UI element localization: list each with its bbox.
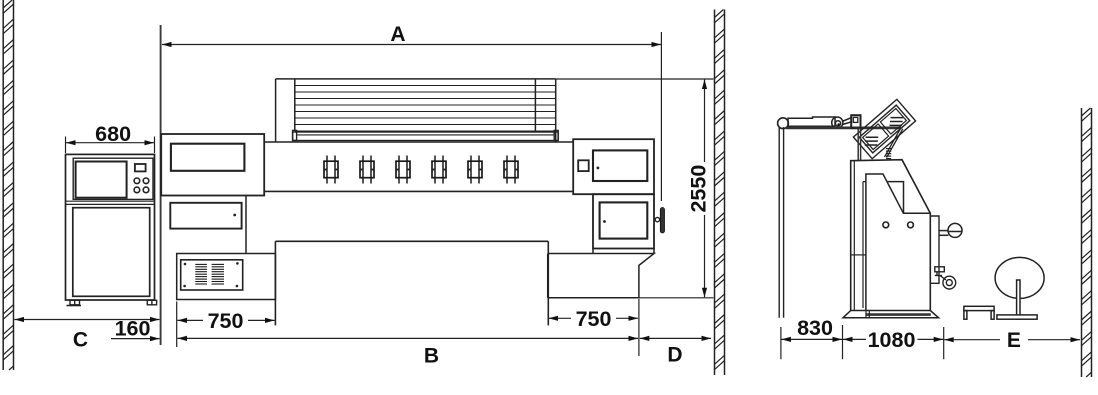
- stool: [964, 306, 994, 319]
- svg-text:830: 830: [797, 316, 833, 340]
- diagonal strut: [885, 128, 903, 158]
- machine left edge / extension line: [160, 25, 162, 345]
- roller assembly frame on top: [276, 79, 556, 142]
- floor extension line to wall: [639, 297, 714, 299]
- support post below bracket: [858, 128, 860, 161]
- spindle unit 2: [360, 156, 374, 184]
- dimension B: [178, 337, 639, 339]
- svg-text:750: 750: [208, 309, 244, 333]
- cabinet right foot: [147, 300, 156, 305]
- side view: fabric stand pole: [778, 118, 789, 318]
- arm bracket: [851, 115, 860, 128]
- right head inner rect: [593, 150, 647, 181]
- svg-text:2550: 2550: [687, 165, 711, 213]
- cabinet left foot: [70, 300, 80, 305]
- svg-text:C: C: [73, 328, 88, 351]
- central bed: [275, 241, 548, 325]
- spindle unit 4: [432, 156, 446, 184]
- roll stand base: [997, 315, 1037, 319]
- tilted panel slat marks (screen-space): [865, 118, 903, 145]
- right base block with chamfer: [548, 254, 654, 298]
- lower clamp and caster: [935, 267, 956, 289]
- needle cover rect: [887, 182, 904, 213]
- spindle unit 3: [396, 156, 410, 184]
- dimension 750 left: [176, 302, 178, 348]
- control cabinet outline: [66, 154, 157, 305]
- door knob: [655, 217, 659, 221]
- top extension line to wall: [556, 78, 714, 80]
- dimension E: [944, 339, 1000, 341]
- spindle unit 1: [324, 156, 338, 184]
- door strip: [863, 182, 866, 308]
- spindle unit 5: [468, 156, 482, 184]
- dimension 750 right: [638, 299, 640, 356]
- svg-text:680: 680: [95, 122, 131, 146]
- right lower door box: [593, 194, 665, 253]
- body buttons: [883, 222, 889, 228]
- left base block: [177, 254, 276, 300]
- handwheel: [939, 223, 962, 237]
- machine beam: [264, 142, 573, 191]
- right head small square: [578, 160, 589, 171]
- dimension 160: [111, 338, 160, 340]
- body inner left strip: [853, 161, 855, 311]
- cabinet screen: [76, 162, 127, 198]
- side view machine body: [851, 160, 931, 311]
- body right rail: [930, 216, 939, 283]
- ventilation grille plate: [181, 260, 243, 290]
- side view: top feed arm: [788, 117, 852, 128]
- dimension 680: [65, 137, 67, 154]
- svg-text:E: E: [1007, 329, 1021, 352]
- dimension D: [640, 337, 711, 339]
- fabric roll: [995, 257, 1044, 319]
- body front panel: [866, 174, 930, 311]
- tilted frame panel (upper): [853, 99, 915, 158]
- svg-text:A: A: [390, 23, 405, 46]
- roller stripes: [295, 86, 556, 132]
- right wall (hatched): [1082, 108, 1092, 377]
- dimension C: [15, 319, 160, 321]
- left head box: [161, 134, 264, 196]
- left wall (hatched): [3, 0, 13, 370]
- svg-text:1080: 1080: [868, 328, 916, 352]
- door handle: [660, 208, 664, 234]
- right head box: [573, 139, 654, 194]
- left column door: [170, 203, 241, 229]
- dimension 2550 (vertical): [704, 80, 706, 163]
- roll stand post: [1017, 280, 1020, 319]
- arm support bar (thick): [786, 127, 901, 130]
- dimension 1080: [943, 327, 945, 359]
- roller tray: [293, 130, 559, 140]
- svg-text:D: D: [667, 343, 682, 366]
- cabinet divider: [66, 200, 155, 202]
- left head inner rect: [171, 144, 245, 171]
- svg-text:B: B: [424, 345, 439, 368]
- dimension A: [162, 44, 661, 46]
- dimension A extension lines: [660, 32, 662, 201]
- thread tension ticks: [886, 149, 891, 159]
- svg-text:160: 160: [115, 316, 151, 340]
- cabinet upper panel: [73, 158, 153, 199]
- svg-text:750: 750: [576, 307, 612, 331]
- body feet base: [843, 311, 939, 318]
- cabinet small square button: [135, 164, 146, 171]
- dimension 830: [780, 327, 782, 359]
- right lower inner rect: [600, 202, 648, 238]
- spindle unit 6: [504, 156, 518, 184]
- cabinet door: [73, 208, 150, 297]
- middle wall (hatched): [715, 10, 725, 376]
- left column below head: [170, 196, 246, 254]
- cabinet round buttons 2x2: [134, 178, 140, 184]
- grille slats: [195, 264, 224, 284]
